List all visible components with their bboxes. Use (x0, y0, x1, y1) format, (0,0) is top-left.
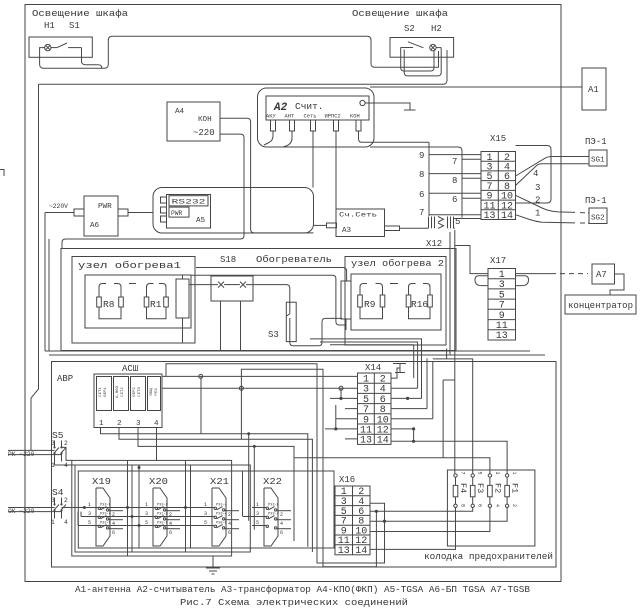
svg-text:РЭ3-4: РЭ3-4 (216, 513, 227, 517)
svg-text:8: 8 (460, 504, 466, 507)
X15 fan wires to SG1 (516, 157, 590, 186)
connector X17 table (488, 269, 516, 341)
svg-text:Освещение шкафа: Освещение шкафа (352, 9, 449, 19)
svg-text:1: 1 (88, 502, 91, 508)
A3 transformer box Сч.Сеть (336, 209, 385, 237)
svg-text:2: 2 (64, 440, 68, 447)
svg-text:2: 2 (112, 512, 115, 518)
svg-text:F4: F4 (458, 483, 468, 493)
svg-text:4: 4 (154, 420, 159, 428)
svg-text:РЭ3-6: РЭ3-6 (100, 522, 111, 526)
svg-text:4: 4 (494, 504, 500, 507)
svg-text:A6: A6 (90, 222, 100, 230)
svg-text:8: 8 (419, 170, 424, 180)
svg-text:узел обогрева 2: узел обогрева 2 (351, 259, 444, 269)
svg-text:5: 5 (204, 520, 207, 526)
svg-text:5: 5 (145, 520, 148, 526)
svg-text:3: 3 (535, 183, 540, 193)
X14 left wires with junctions (162, 376, 358, 439)
svg-text:Счит.: Счит. (295, 101, 324, 112)
svg-text:2: 2 (511, 504, 517, 507)
svg-text:S3: S3 (268, 330, 279, 340)
resistor R16 (406, 284, 432, 319)
cabinet outer border (25, 5, 561, 582)
SG1 box (589, 150, 607, 166)
svg-text:A7: A7 (596, 270, 607, 280)
svg-text:F2: F2 (492, 483, 502, 493)
svg-text:7: 7 (460, 472, 466, 475)
svg-text:ОБЩ: ОБЩ (150, 388, 154, 396)
svg-text:ИРПС2: ИРПС2 (325, 114, 341, 120)
svg-text:КОН: КОН (198, 116, 212, 124)
svg-text:2: 2 (535, 196, 540, 206)
svg-text:X22: X22 (263, 477, 282, 487)
ground near A2 (365, 103, 415, 110)
inner enclosure 2 (351, 274, 441, 330)
svg-text:СЕТЗ: СЕТЗ (138, 387, 142, 397)
resistor R8 (97, 284, 124, 319)
узел обогрева1 box (72, 257, 195, 344)
svg-text:3: 3 (204, 511, 207, 517)
wire АКУ curve to shield (264, 131, 273, 145)
long verticals to fuse block (294, 230, 507, 474)
svg-text:3: 3 (136, 420, 141, 428)
svg-text:ОБР1: ОБР1 (104, 387, 108, 397)
lamp/switch box H1 S1 (29, 37, 92, 57)
A4 box (167, 102, 220, 141)
wire A6 to A5 (128, 212, 153, 214)
svg-text:7: 7 (452, 157, 457, 167)
svg-text:РЭ3-8: РЭ3-8 (100, 504, 111, 508)
svg-text:2: 2 (64, 497, 68, 504)
A2 terminal circle and ground (360, 100, 365, 105)
АВР box (52, 362, 557, 568)
svg-text:5: 5 (256, 520, 259, 526)
svg-text:РЭ3-4: РЭ3-4 (268, 513, 279, 517)
svg-text:PWR: PWR (171, 210, 183, 217)
wire ИРПС2 down to A3 (335, 131, 337, 223)
svg-text:SG1: SG1 (591, 157, 605, 165)
svg-text:R1: R1 (150, 299, 162, 310)
A2 pin АНТ (290, 120, 295, 131)
dashed wire X17 to A7 (516, 273, 557, 275)
АСШ block (94, 374, 162, 428)
fuse block box (447, 470, 535, 546)
resistor R9 (358, 284, 385, 319)
A5 terminals (161, 197, 167, 203)
wire X12 to X17 (454, 228, 489, 273)
svg-text:6: 6 (280, 530, 283, 536)
F3 feed (433, 359, 473, 474)
connector X15 table (481, 152, 516, 220)
svg-text:2: 2 (280, 512, 283, 518)
svg-text:R9: R9 (364, 299, 376, 310)
svg-text:4: 4 (169, 521, 172, 527)
connector X12 symbol (429, 217, 454, 229)
wire A3 to X12 (400, 227, 429, 229)
svg-text:Рис.7 Схема электрических соед: Рис.7 Схема электрических соединений (180, 597, 408, 608)
svg-text:4: 4 (280, 521, 283, 527)
svg-text:X15: X15 (490, 134, 506, 144)
F4 feed from X12 area (454, 230, 456, 474)
wire from S5 to right (55, 447, 76, 465)
svg-text:РЭ3-4: РЭ3-4 (216, 504, 227, 508)
svg-text:13: 13 (483, 211, 495, 222)
svg-text:РЭ1-8: РЭ1-8 (157, 513, 168, 517)
svg-text:1: 1 (511, 472, 517, 475)
svg-text:ПЭ-1: ПЭ-1 (585, 137, 607, 147)
wire A7 to концентратор (610, 274, 624, 295)
svg-text:A2: A2 (273, 102, 288, 114)
lamp bundle wire across page (39, 50, 448, 84)
parallel wire (449, 232, 451, 355)
A2 rounded enclosure (258, 88, 375, 147)
row buses through relays (84, 507, 212, 509)
A3 right terminal (385, 226, 400, 231)
wire pair second (48, 239, 50, 351)
antenna A1 box (582, 68, 606, 110)
svg-text:X21: X21 (210, 477, 229, 487)
концентратор box (565, 295, 636, 314)
svg-text:А1-антенна А2-считыватель А3-т: А1-антенна А2-считыватель А3-трансформат… (75, 584, 530, 595)
shield bus from A2 enclosure bottom to X15 inner bus (370, 147, 462, 218)
ground symbol near X14 (393, 364, 406, 373)
svg-text:6: 6 (477, 504, 483, 507)
svg-text:АВР: АВР (57, 374, 73, 384)
svg-text:узел обогрева1: узел обогрева1 (78, 261, 181, 271)
svg-text:F1: F1 (510, 483, 520, 493)
svg-text:1: 1 (51, 519, 55, 526)
wire S3 bottom to tall res2 (290, 318, 342, 345)
svg-text:3: 3 (88, 511, 91, 517)
long top bundle wire across page (112, 36, 438, 67)
svg-text:5: 5 (88, 520, 91, 526)
wire band from heater to X14 verticals (310, 339, 433, 419)
svg-text:2: 2 (169, 512, 172, 518)
svg-text:КОН: КОН (350, 114, 360, 120)
svg-text:S18: S18 (220, 255, 236, 265)
A5 rounded enclosure (153, 188, 314, 234)
svg-text:X12: X12 (426, 239, 442, 249)
svg-text:PWR: PWR (98, 203, 112, 211)
svg-text:6: 6 (228, 530, 231, 536)
svg-text:14: 14 (501, 211, 513, 222)
svg-text:РЭ5-8: РЭ5-8 (157, 522, 168, 526)
heater section outer box (61, 249, 456, 351)
resistor R1 (144, 284, 168, 319)
svg-text:1: 1 (256, 502, 259, 508)
svg-text:H1: H1 (44, 21, 55, 31)
svg-text:8: 8 (452, 176, 457, 186)
lamp H2 (430, 44, 442, 50)
svg-text:X17: X17 (490, 256, 506, 266)
svg-text:S2: S2 (404, 24, 415, 34)
svg-text:7: 7 (419, 208, 424, 218)
switch S2 (401, 42, 424, 48)
X15 fan wires to SG2 (516, 195, 590, 223)
inner enclosure 1 (85, 275, 191, 328)
svg-text:13: 13 (496, 331, 508, 342)
svg-text:РЭ3-4: РЭ3-4 (100, 513, 111, 517)
connector X16 table (335, 486, 370, 555)
fuse F1 (505, 474, 510, 508)
svg-text:6: 6 (169, 530, 172, 536)
inner big box top edge and left drop wire (31, 84, 39, 449)
svg-text:3: 3 (256, 511, 259, 517)
svg-text:3: 3 (494, 472, 500, 475)
X16 right wires to fuse box (370, 508, 507, 550)
svg-text:A1: A1 (588, 85, 599, 95)
X14 right wires (391, 368, 433, 441)
svg-text:концентратор: концентратор (568, 301, 633, 311)
A6 left terminal (74, 209, 84, 216)
A6 right terminal (118, 209, 128, 216)
svg-text:АНТ: АНТ (285, 114, 295, 120)
fuse F3 (470, 474, 475, 508)
svg-text:R8: R8 (103, 299, 115, 310)
X15 fan-out loop wire (516, 146, 552, 204)
X15 stub wires and wire numbers (429, 155, 481, 219)
wire Сеть down to A5 enclosure (312, 131, 314, 188)
svg-text:1: 1 (145, 502, 148, 508)
A4 ~220 wire down-left (62, 134, 244, 248)
svg-text:Сеть: Сеть (304, 114, 317, 120)
S18 heater box (211, 276, 253, 301)
S18 drop wires (221, 301, 241, 351)
svg-text:S1: S1 (69, 21, 80, 31)
lamp H1 (45, 44, 51, 50)
svg-text:ПЭ-1: ПЭ-1 (585, 196, 607, 206)
X16 loop wires over top (166, 364, 385, 563)
svg-text:2: 2 (117, 420, 122, 428)
SG2 box (589, 208, 607, 224)
svg-text:1: 1 (99, 420, 104, 428)
svg-text:RS232: RS232 (172, 199, 206, 206)
A2 pin Сеть (311, 120, 316, 131)
svg-text:РЕЗ: РЕЗ (155, 388, 159, 396)
wire tall res to S18 (189, 284, 218, 286)
svg-text:13: 13 (338, 546, 350, 557)
узел обогрева 2 box (345, 257, 446, 346)
svg-text:14: 14 (377, 436, 389, 447)
switch S1 (51, 43, 82, 48)
svg-text:A5: A5 (196, 217, 206, 225)
svg-text:SG2: SG2 (591, 215, 605, 223)
svg-text:СЕТ2: СЕТ2 (121, 387, 125, 397)
svg-text:АКУ: АКУ (266, 114, 276, 120)
pin wires (264, 131, 429, 223)
fuse F4 (453, 474, 458, 508)
svg-text:4: 4 (112, 521, 115, 527)
nested wire rectangles around relays (72, 460, 334, 556)
F1 feed (414, 441, 508, 474)
svg-text:РЭ3-8: РЭ3-8 (268, 504, 279, 508)
svg-text:1: 1 (204, 502, 207, 508)
connector X14 table (358, 373, 392, 444)
svg-text:РЭ3-8: РЭ3-8 (157, 504, 168, 508)
X17 side hooks (475, 276, 488, 286)
svg-text:А-ВОЗ: А-ВОЗ (116, 385, 120, 398)
A3 left terminal (327, 223, 337, 228)
wire АНТ curve to shield (283, 131, 292, 147)
wire loops below S2/H2 box (401, 48, 442, 76)
vertical wires between relays (128, 434, 255, 556)
A2 pin КОН (356, 120, 361, 131)
tall resistor node1 (176, 279, 189, 318)
svg-text:1: 1 (535, 209, 540, 219)
svg-text:X19: X19 (92, 477, 111, 487)
wire enclosure1 top to uzel2 (191, 275, 345, 325)
svg-text:Освещение шкафа: Освещение шкафа (32, 9, 129, 19)
heater element X marks (218, 282, 246, 288)
ground symbol bottom (206, 556, 220, 574)
A7 box (592, 264, 615, 284)
lamp/switch box S2 H2 (390, 38, 454, 58)
wire ~220V into A6 (45, 213, 74, 352)
svg-text:Сч.Сеть: Сч.Сеть (339, 212, 377, 219)
svg-text:~220: ~220 (193, 128, 215, 138)
A4 KOH wire to X15 bus (220, 118, 314, 233)
short stub (446, 349, 448, 359)
svg-text:Обогреватель: Обогреватель (256, 255, 332, 265)
svg-text:5: 5 (455, 217, 460, 227)
svg-text:3: 3 (145, 511, 148, 517)
A2 reader box (266, 96, 369, 120)
switch S3 (286, 302, 296, 341)
svg-text:A4: A4 (175, 108, 185, 116)
junction drops from top buses (201, 376, 241, 439)
fuse F2 (488, 474, 493, 508)
F2 feed (294, 458, 490, 474)
svg-text:R16: R16 (411, 299, 428, 310)
wire loops below H1/S1 box (40, 36, 113, 68)
svg-text:ОБР2: ОБР2 (133, 387, 137, 397)
antenna wire to A1 (370, 86, 582, 88)
svg-text:6: 6 (419, 190, 424, 200)
svg-text:~220V: ~220V (49, 203, 68, 210)
dash between R8 R1 (129, 283, 136, 285)
page margin tick (0, 170, 4, 177)
tall resistor node2 (341, 281, 351, 319)
wires from АСШ pins down across (101, 428, 313, 553)
svg-text:2: 2 (228, 512, 231, 518)
svg-text:X20: X20 (149, 477, 168, 487)
A6 power supply box (84, 196, 118, 236)
svg-text:H2: H2 (431, 24, 442, 34)
A2 pin АКУ (271, 120, 276, 131)
wire from S4 to relays (62, 507, 85, 509)
dash between R9 R16 (390, 283, 398, 285)
svg-text:колодка предохранителей: колодка предохранителей (424, 551, 553, 562)
svg-text:4: 4 (64, 519, 68, 526)
wire S18 right to S3 (246, 285, 290, 302)
X15 outer bus (428, 142, 430, 216)
svg-text:9: 9 (419, 151, 424, 161)
svg-text:X14: X14 (365, 363, 381, 373)
wire КОН to X15 bus (359, 131, 430, 142)
svg-text:13: 13 (360, 436, 372, 447)
svg-text:5: 5 (477, 472, 483, 475)
svg-text:4: 4 (533, 169, 538, 179)
svg-text:РЭ8-6: РЭ8-6 (216, 522, 227, 526)
long horizontal wire below heater box (45, 351, 545, 355)
svg-text:6: 6 (112, 530, 115, 536)
svg-text:F3: F3 (475, 483, 485, 493)
svg-text:А3: А3 (342, 227, 352, 235)
svg-text:14: 14 (355, 546, 367, 557)
svg-text:АСШ: АСШ (122, 364, 138, 374)
svg-text:6: 6 (452, 195, 457, 205)
A2 pin ИРПС2 (334, 120, 339, 131)
svg-text:4: 4 (228, 521, 231, 527)
wire A3 left to A5 enclosure (314, 224, 327, 226)
A5 box (167, 195, 211, 229)
svg-text:СЕТ1: СЕТ1 (99, 387, 103, 397)
svg-text:X16: X16 (339, 475, 355, 485)
